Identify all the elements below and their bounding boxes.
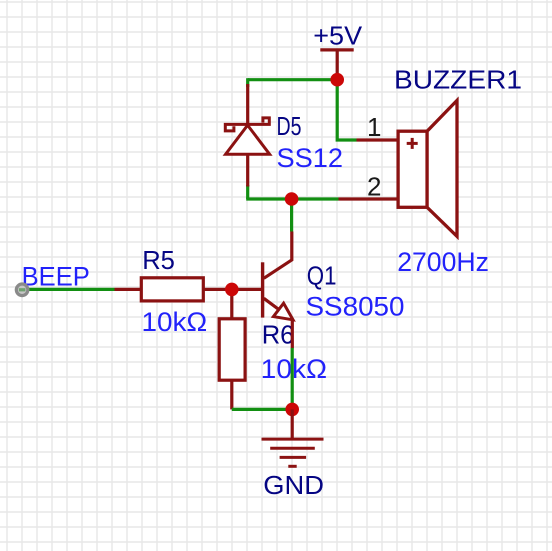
svg-text:SS8050: SS8050: [306, 292, 405, 322]
junction dot base row: [225, 283, 239, 297]
svg-text:1: 1: [367, 112, 381, 142]
wire BEEP row green: [20, 288, 115, 291]
wire D5 bottom stub: [246, 185, 249, 199]
junction dot bottom row: [285, 403, 299, 417]
wire collector green: [290, 199, 293, 232]
buzzer BUZZER1: [339, 100, 458, 236]
svg-text:BUZZER1: BUZZER1: [394, 64, 522, 94]
wire +5V top horizontal: [248, 78, 338, 81]
diode D5: [225, 84, 269, 187]
svg-text:D5: D5: [277, 111, 302, 141]
wire +5V junction down to buzzer pin1: [337, 80, 356, 140]
resistor R6: [219, 289, 245, 409]
wire bottom row green: [232, 408, 292, 411]
svg-text:10kΩ: 10kΩ: [261, 354, 327, 384]
wire D5 top stub: [246, 78, 249, 87]
svg-text:R6: R6: [262, 319, 295, 349]
svg-text:BEEP: BEEP: [22, 262, 90, 292]
junction dot top: [330, 73, 344, 87]
power +5V symbol: [320, 50, 353, 75]
svg-text:SS12: SS12: [277, 143, 344, 173]
svg-text:+5V: +5V: [313, 21, 362, 51]
svg-text:2700Hz: 2700Hz: [397, 247, 489, 277]
transistor Q1: [232, 232, 293, 349]
wire emitter green: [291, 348, 294, 410]
svg-text:2: 2: [367, 171, 381, 201]
ground GND: [262, 409, 324, 466]
svg-text:GND: GND: [263, 470, 324, 500]
svg-text:R5: R5: [142, 245, 175, 275]
port pin BEEP: [16, 284, 28, 296]
svg-text:10kΩ: 10kΩ: [142, 307, 208, 337]
svg-text:Q1: Q1: [307, 261, 337, 291]
resistor R5: [115, 278, 232, 301]
junction dot pin2 row: [285, 192, 299, 206]
wire pin2 row green: [246, 197, 338, 200]
